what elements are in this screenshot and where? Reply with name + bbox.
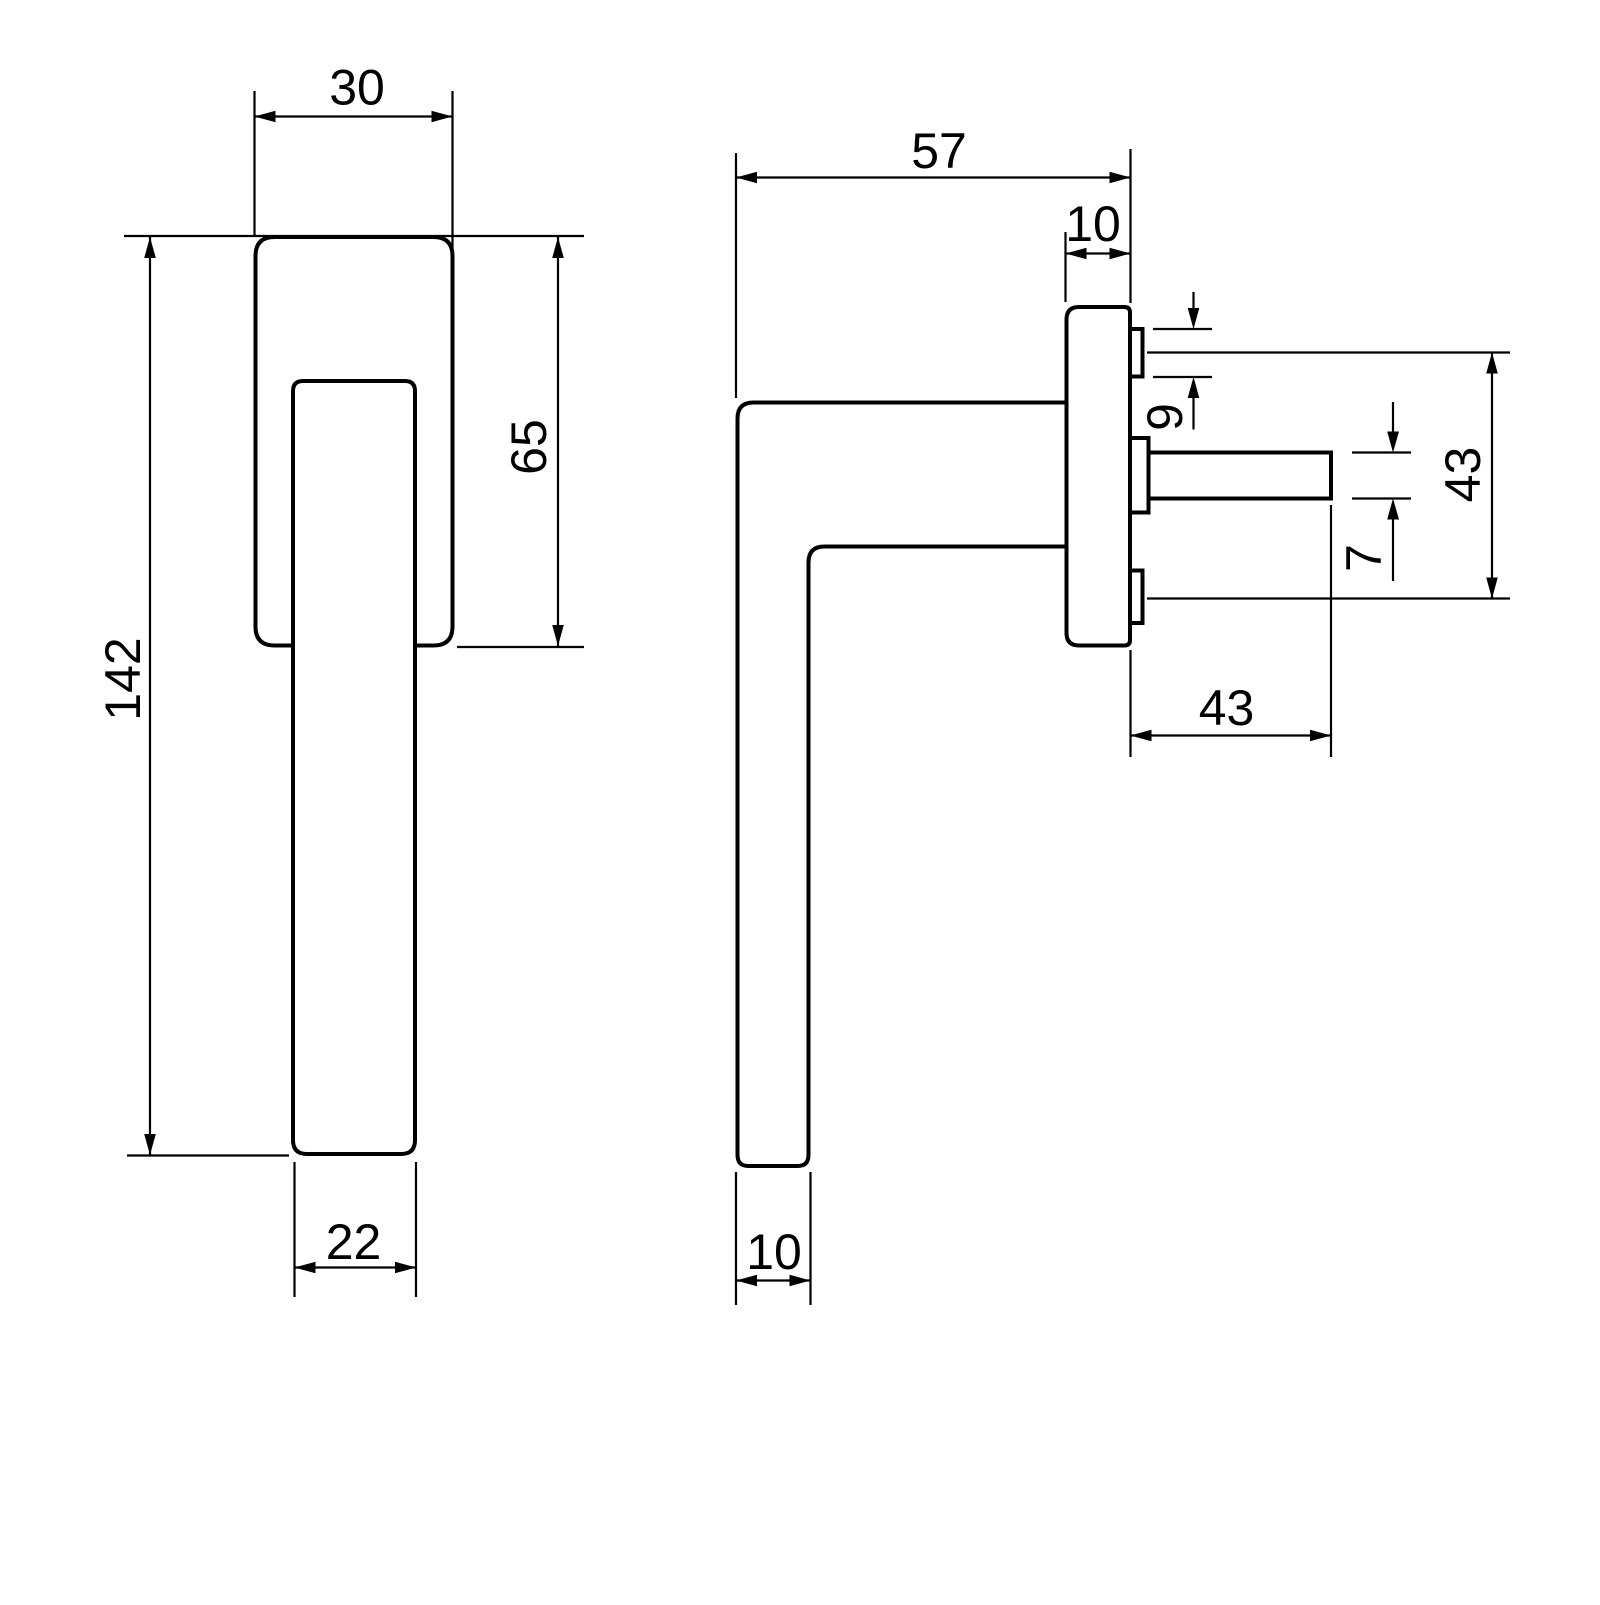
dimension 30 arrow left [255, 111, 276, 123]
dimension 43 right extension line top [1147, 351, 1510, 353]
dimension 9 extension line bottom [1153, 376, 1212, 378]
dimension 9 upper arrow [1188, 308, 1200, 329]
dimension 57 extension line left [735, 153, 737, 398]
dimension 22 arrow right [395, 1262, 416, 1274]
dimension 7 extension line bottom [1352, 497, 1411, 499]
dimension 57 line [736, 176, 1131, 178]
rosette front view [256, 237, 453, 646]
handle grip front view [293, 381, 415, 1154]
svg-text:30: 30 [329, 60, 385, 116]
svg-text:22: 22 [326, 1214, 382, 1270]
dimension 142 line [149, 237, 151, 1155]
dimension 43 bottom arrow left [1131, 730, 1152, 742]
spindle shaft [1149, 453, 1332, 499]
dimension 43 right extension line bottom [1147, 597, 1510, 599]
svg-text:43: 43 [1435, 447, 1491, 503]
dimension 7 extension line top [1352, 451, 1411, 453]
handle side view profile [738, 403, 1066, 1167]
svg-text:57: 57 [911, 123, 967, 179]
dimension 142 arrow top [144, 237, 156, 258]
dimension 142 arrow bottom [144, 1134, 156, 1155]
dimension 9 lower arrow line [1192, 396, 1194, 430]
dimension 22 extension line right [415, 1162, 417, 1297]
svg-text:65: 65 [501, 419, 557, 475]
dimension 43 right arrow top [1486, 353, 1498, 374]
dimension 57 extension line right [1129, 149, 1131, 303]
dimension 65 bottom extension line [457, 646, 584, 648]
rosette side view [1067, 307, 1131, 646]
dimension 9 extension line top [1153, 328, 1212, 330]
dimension 57 arrow right [1110, 172, 1131, 184]
svg-text:142: 142 [95, 637, 151, 720]
dimension 43 right arrow bottom [1486, 578, 1498, 599]
dimension 142 bottom extension line [127, 1154, 289, 1156]
dimension 10 top line [1066, 252, 1131, 254]
screw top [1130, 329, 1143, 377]
spindle boss [1130, 438, 1149, 513]
dimension 9 upper arrow line [1192, 292, 1194, 310]
dimension 65 arrow top [552, 237, 564, 258]
dimension 30 arrow right [432, 111, 453, 123]
svg-text:10: 10 [1065, 196, 1121, 252]
svg-text:10: 10 [746, 1224, 802, 1280]
dimension 7 upper arrow line [1392, 402, 1394, 434]
dimension 65 arrow bottom [552, 625, 564, 646]
dimension 22 extension line left [293, 1162, 295, 1297]
dimension 10 top arrow left [1066, 248, 1087, 260]
dimension 57 arrow left [736, 172, 757, 184]
dimension 30 extension line right [451, 91, 453, 248]
dimension 43 bottom arrow right [1310, 730, 1331, 742]
dimension 43 bottom extension line right [1330, 505, 1332, 757]
dimension 65 line [557, 237, 559, 646]
dimension 7 upper arrow [1387, 432, 1399, 453]
dimension 9 lower arrow [1188, 377, 1200, 398]
dimension 43 bottom line [1131, 734, 1332, 736]
screw bottom [1130, 571, 1143, 624]
svg-text:7: 7 [1336, 544, 1392, 572]
svg-text:43: 43 [1199, 680, 1255, 736]
dimension 10 top arrow right [1110, 248, 1131, 260]
dimension 7 lower arrow line [1392, 520, 1394, 582]
dimension 43 bottom extension line left [1129, 650, 1131, 757]
dimension 10 bottom arrow left [736, 1275, 757, 1287]
dimension 10 bottom arrow right [790, 1275, 811, 1287]
dimension 10 top extension line left [1064, 232, 1066, 302]
svg-text:9: 9 [1137, 403, 1193, 431]
dimension 10 bottom extension line left [735, 1172, 737, 1305]
dimension 30 line [255, 115, 453, 117]
dimension 22 arrow left [295, 1262, 316, 1274]
dimension 10 bottom extension line right [809, 1172, 811, 1305]
dimension 43 right line [1491, 353, 1493, 599]
dimension 7 lower arrow [1387, 499, 1399, 520]
dimension 22 line [295, 1266, 417, 1268]
dimension 30 extension line left [253, 91, 255, 237]
dimension 10 bottom line [736, 1279, 811, 1281]
dimension 142/65 shared top extension line [124, 235, 584, 237]
